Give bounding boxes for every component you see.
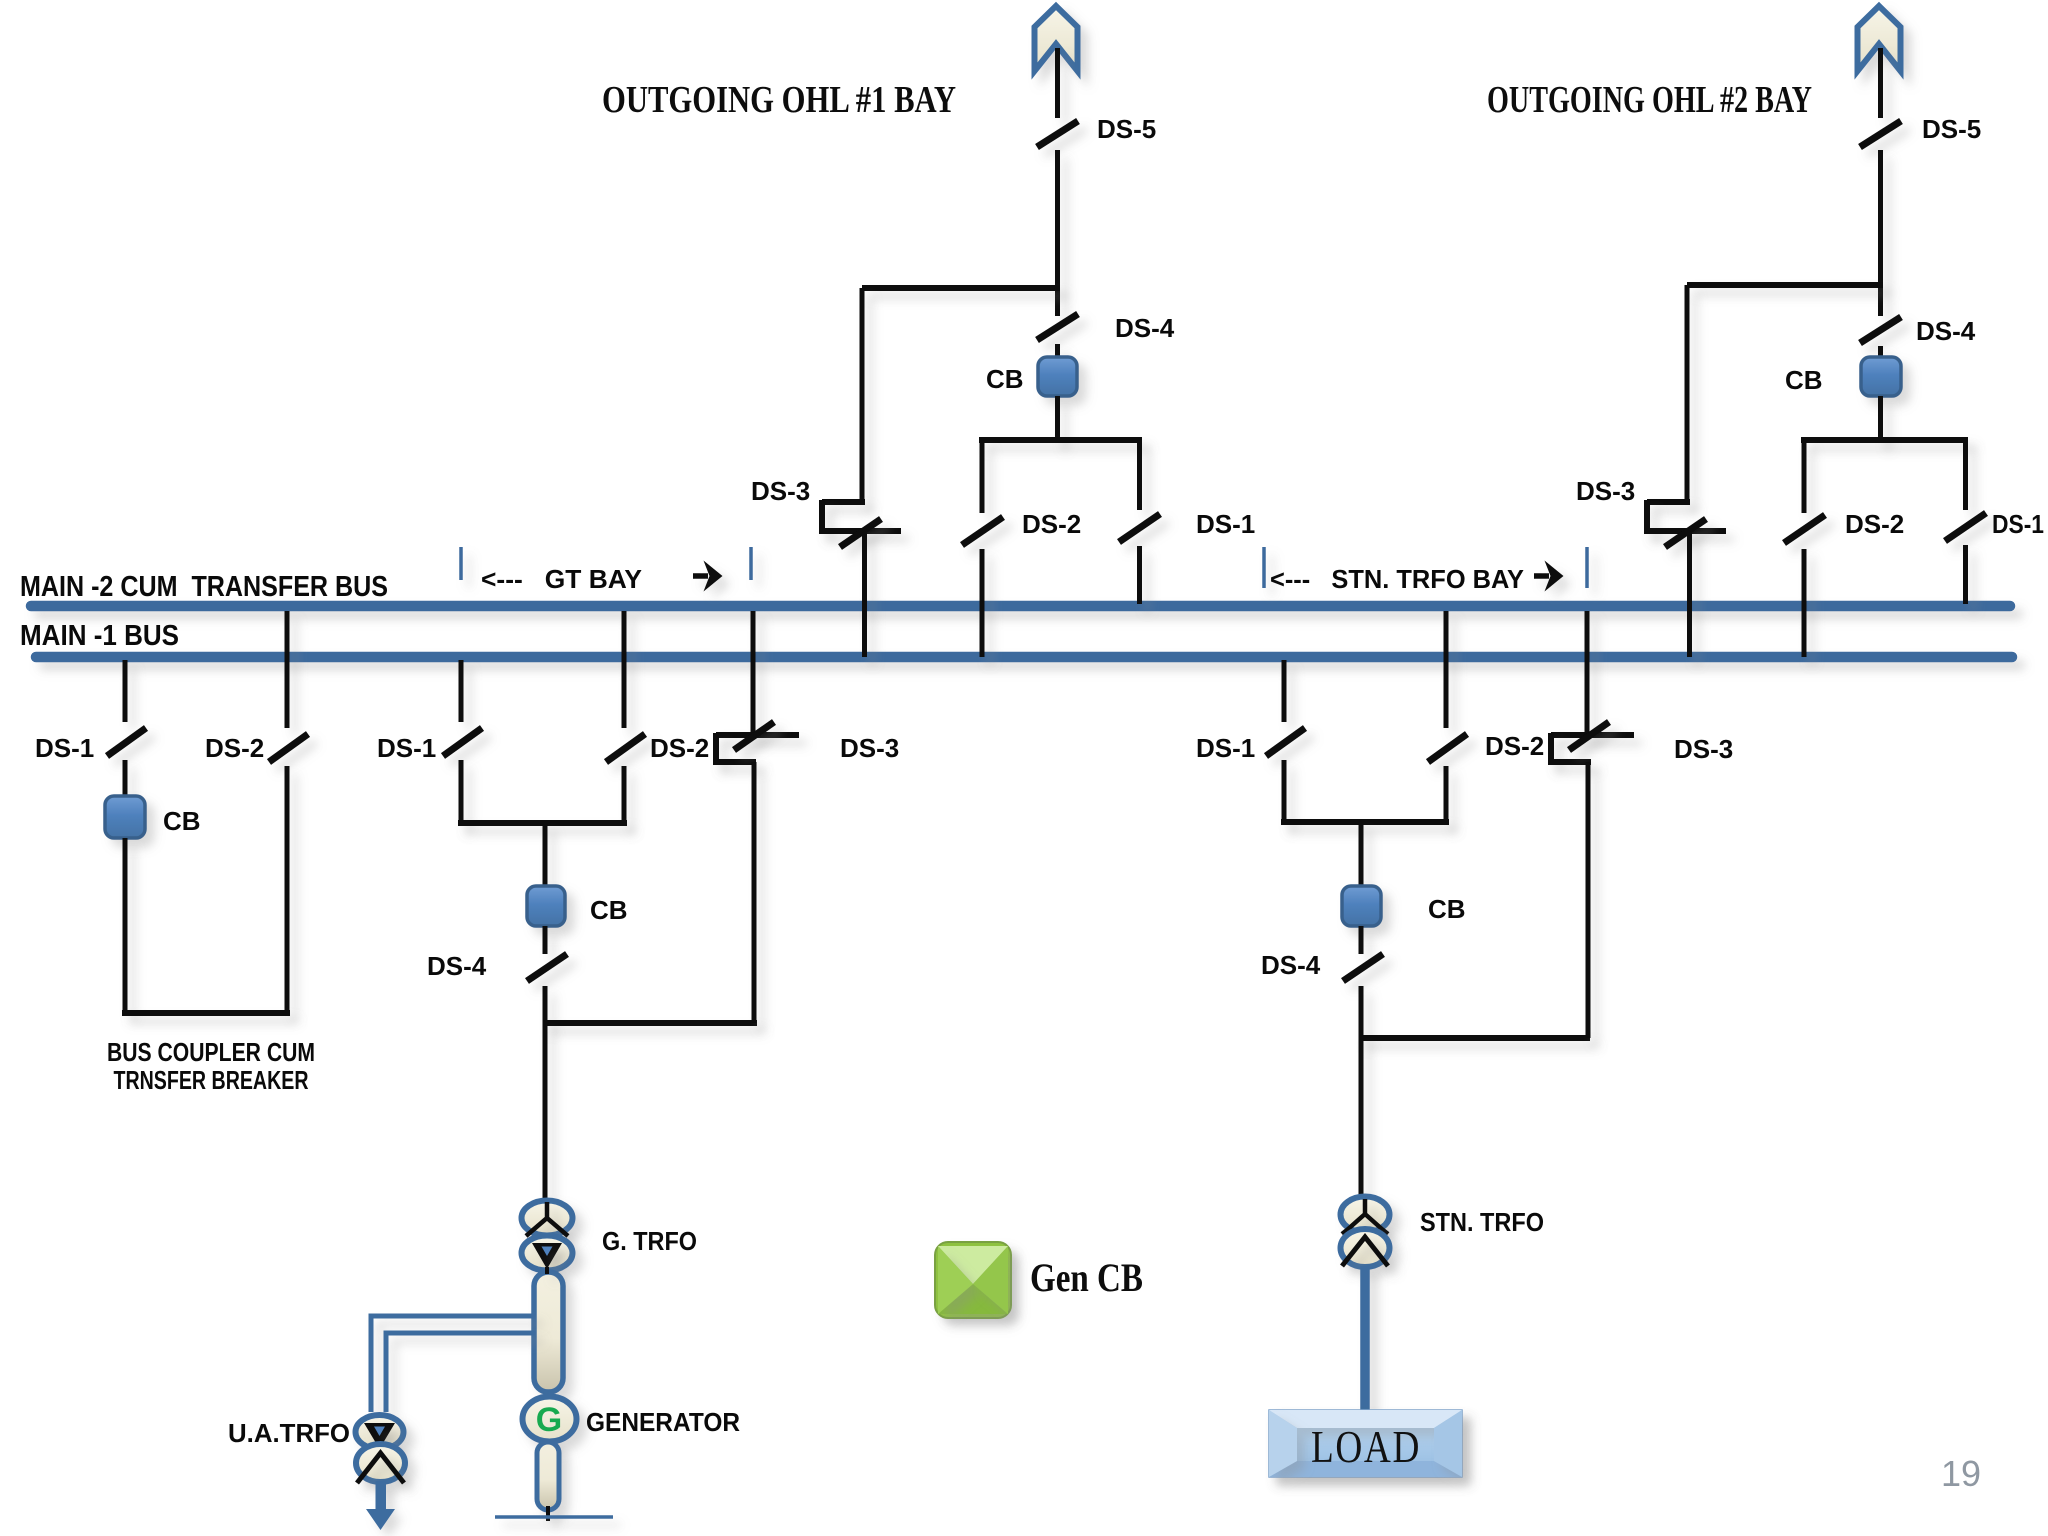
wire GT DS-2 upper [622, 611, 627, 728]
wire GT junction to DS-3 branch [543, 1020, 757, 1026]
svg-text:DS-3: DS-3 [1576, 476, 1635, 506]
svg-text:DS-3: DS-3 [840, 733, 899, 763]
wire STN below CB [1359, 926, 1364, 954]
disconnector DS-3 (OHL2) slash [1665, 519, 1706, 547]
svg-text:DS-2: DS-2 [1845, 509, 1904, 539]
transformer STN.TRFO chevron symbol [1342, 1237, 1388, 1266]
disconnector DS-3 (OHL1) slash [840, 519, 881, 547]
wire coupler DS-2 lower [285, 766, 290, 1013]
disconnector DS-3 (OHL2) jaw top [1647, 499, 1690, 505]
svg-text:DS-3: DS-3 [751, 476, 810, 506]
wire GT DS-1 lower [459, 760, 464, 826]
transformer U.A.TRFO upper winding [356, 1415, 404, 1449]
svg-text:DS-2: DS-2 [205, 733, 264, 763]
disconnector DS-3 (GT) jaw left step [713, 733, 719, 764]
wire OHL2 junction horizontal [1687, 282, 1883, 288]
wire OHL2 DS-1 upper [1963, 440, 1968, 510]
wire OHL2 below CB [1878, 396, 1883, 443]
disconnector DS-4 (GT) slash [527, 954, 567, 981]
wire STN CB drop [1359, 822, 1364, 888]
disconnector DS-4 (STN) slash [1343, 954, 1383, 981]
transformer G.TRFO upper winding [522, 1201, 573, 1236]
disconnector DS-5 (OHL1) slash [1037, 121, 1078, 147]
circuit breaker CB (OHL2) [1861, 357, 1901, 396]
disconnector DS-1 (GT) slash [443, 728, 482, 756]
disconnector DS-3 (GT) jaw bottom [713, 759, 756, 765]
svg-text:DS-1: DS-1 [35, 733, 94, 763]
transformer STN.TRFO lower winding [1341, 1229, 1390, 1267]
svg-text:G. TRFO: G. TRFO [602, 1226, 697, 1256]
generator G circle [523, 1397, 577, 1442]
svg-text:DS-2: DS-2 [1485, 731, 1544, 761]
LOAD box bottom bevel [1269, 1461, 1462, 1477]
svg-text:BUS COUPLER CUM: BUS COUPLER CUM [107, 1037, 315, 1067]
generator earth line [495, 1515, 613, 1519]
disconnector DS-3 (STN) jaw bottom [1548, 759, 1591, 765]
svg-text:CB: CB [1785, 365, 1823, 395]
LOAD box top bevel [1269, 1410, 1462, 1428]
wire GT DS-1 upper [459, 660, 464, 722]
disconnector DS-1 (OHL2) slash [1945, 513, 1986, 541]
transformer U.A.TRFO lower winding [356, 1444, 405, 1482]
disconnector DS-3 (OHL1) drop wire [860, 288, 865, 505]
svg-text:CB: CB [986, 364, 1024, 394]
wire OHL2 feeder [1878, 150, 1883, 316]
GT bay right tick [749, 547, 753, 580]
svg-text:OUTGOING OHL #1 BAY: OUTGOING OHL #1 BAY [602, 79, 956, 121]
generator bus duct upper bar [534, 1272, 563, 1392]
wire GT to G.TRFO [543, 1023, 548, 1203]
svg-text:DS-4: DS-4 [1261, 950, 1321, 980]
LOAD box right bevel [1434, 1410, 1462, 1477]
svg-text:DS-4: DS-4 [427, 951, 487, 981]
GT bay arrow glyph [693, 573, 708, 579]
wire OHL1 DS-3 lower [862, 531, 867, 657]
wire OHL1 DS-1 upper [1137, 440, 1142, 510]
bus MAIN-1 BUS [36, 652, 2012, 663]
STN TRFO bay arrow glyph [1534, 573, 1549, 579]
svg-text:<--- GT BAY: <--- GT BAY [481, 564, 642, 594]
circuit breaker CB (STN) [1342, 886, 1381, 926]
disconnector DS-3 (OHL1) jaw left step [819, 500, 825, 533]
wire OHL1 DS-1 lower [1137, 546, 1142, 604]
GT bay left tick [459, 547, 463, 580]
svg-text:MAIN -1 BUS: MAIN -1 BUS [20, 620, 179, 652]
wire STN DS-1 upper [1282, 660, 1287, 722]
disconnector DS-3 (GT) slash [734, 722, 774, 750]
outgoing line arrow OHL2 [1858, 6, 1901, 71]
generator bus duct lower bar [537, 1442, 559, 1510]
disconnector DS-3 (GT) jaw top [716, 732, 799, 738]
transformer G.TRFO wye symbol [526, 1202, 568, 1236]
transformer STN.TRFO wye symbol [1342, 1199, 1388, 1234]
wire coupler DS-1 lower [123, 760, 128, 798]
circuit breaker CB (coupler) [105, 796, 145, 838]
wire OHL2 DS-4 to CB [1878, 346, 1883, 359]
wire OHL2 DS-2 lower [1802, 549, 1807, 657]
wire OHL1 DS-2 lower [980, 549, 985, 657]
duct to U.A.TRFO inner line [386, 1333, 535, 1412]
duct to U.A.TRFO outer line [371, 1316, 535, 1412]
wire OHL2 DS-1 lower [1963, 545, 1968, 604]
wire STN below DS-4 [1359, 986, 1364, 1041]
svg-text:19: 19 [1941, 1453, 1981, 1494]
disconnector DS-3 (OHL1) jaw top [822, 499, 865, 505]
circuit breaker CB (OHL1) [1038, 357, 1077, 396]
disconnector DS-3 (OHL2) jaw bottom [1644, 528, 1726, 534]
wire coupler bottom link [122, 1010, 290, 1016]
wire GT CB drop [543, 823, 548, 888]
svg-text:DS-1: DS-1 [377, 733, 436, 763]
svg-text:TRNSFER BREAKER: TRNSFER BREAKER [114, 1065, 309, 1095]
wire OHL2 DS-2 upper [1802, 440, 1807, 513]
disconnector DS-4 (OHL2) slash [1860, 317, 1901, 343]
generator breaker Gen CB symbol [935, 1242, 1011, 1318]
wire GT below DS-4 [543, 986, 548, 1026]
U.A.TRFO load arrow [366, 1481, 395, 1530]
wire OHL1 DS-4 to CB [1055, 344, 1060, 359]
wire coupler below CB [123, 838, 128, 1013]
wire G.TRFO to bar [545, 1267, 549, 1274]
wire OHL1 above DS-5 [1055, 48, 1060, 118]
svg-text:GENERATOR: GENERATOR [586, 1407, 740, 1437]
disconnector DS-2 (coupler) slash [269, 734, 308, 762]
disconnector DS-1 (STN) slash [1266, 728, 1305, 756]
wire coupler DS-2 upper [285, 611, 290, 728]
wire GT DS-3 lower [752, 762, 757, 1023]
svg-text:DS-3: DS-3 [1674, 734, 1733, 764]
circuit breaker CB (GT) [527, 886, 565, 926]
svg-text:DS-4: DS-4 [1916, 316, 1976, 346]
svg-text:MAIN -2 CUM TRANSFER BUS: MAIN -2 CUM TRANSFER BUS [20, 571, 388, 603]
wire generator ground tick [546, 1506, 550, 1521]
svg-text:DS-2: DS-2 [1022, 509, 1081, 539]
wire coupler DS-1 upper [123, 660, 128, 722]
svg-text:DS-1: DS-1 [1196, 733, 1255, 763]
svg-text:DS-5: DS-5 [1097, 114, 1156, 144]
wire GT join bar [458, 820, 627, 826]
svg-text:CB: CB [1428, 894, 1466, 924]
wire STN DS-2 lower [1444, 766, 1449, 825]
disconnector DS-2 (OHL1) slash [962, 517, 1003, 545]
disconnector DS-3 (OHL2) drop wire [1685, 285, 1690, 505]
svg-text:DS-1: DS-1 [1992, 509, 2044, 539]
wire GT DS-2 lower [622, 766, 627, 826]
disconnector DS-2 (STN) slash [1428, 734, 1467, 762]
svg-text:STN. TRFO: STN. TRFO [1420, 1207, 1544, 1237]
svg-text:Gen CB: Gen CB [1030, 1255, 1143, 1300]
wire STN DS-2 upper [1444, 611, 1449, 728]
disconnector DS-3 (STN) slash [1569, 722, 1609, 750]
svg-text:G: G [536, 1401, 562, 1439]
disconnector DS-5 (OHL2) slash [1860, 121, 1901, 147]
wire OHL1 below CB [1055, 396, 1060, 443]
wire OHL1 T bar [979, 437, 1142, 443]
wire STN.TRFO to LOAD (blue) [1360, 1266, 1370, 1412]
disconnector DS-1 (coupler) slash [107, 728, 146, 756]
transformer U.A.TRFO chevron symbol [357, 1453, 404, 1483]
svg-text:CB: CB [590, 895, 628, 925]
STN TRFO bay right tick [1585, 547, 1589, 588]
svg-text:CB: CB [163, 806, 201, 836]
disconnector DS-3 (STN) jaw top [1551, 732, 1634, 738]
svg-text:OUTGOING OHL #2 BAY: OUTGOING OHL #2 BAY [1487, 79, 1812, 121]
disconnector DS-3 (OHL1) jaw bottom [819, 528, 901, 534]
STN TRFO bay left tick [1262, 547, 1266, 588]
svg-text:DS-2: DS-2 [650, 733, 709, 763]
svg-text:LOAD: LOAD [1311, 1421, 1421, 1472]
svg-text:DS-4: DS-4 [1115, 313, 1175, 343]
wire STN DS-1 lower [1282, 760, 1287, 825]
disconnector DS-3 (GT) top wire [751, 611, 756, 736]
LOAD box outer [1269, 1410, 1462, 1477]
wire OHL1 feeder [1055, 150, 1060, 316]
svg-text:<--- STN. TRFO BAY: <--- STN. TRFO BAY [1270, 564, 1524, 594]
wire OHL2 above DS-5 [1878, 48, 1883, 118]
wire STN DS-3 lower [1586, 762, 1591, 1038]
wire OHL1 junction horizontal [862, 285, 1060, 291]
wire OHL2 T bar [1801, 437, 1968, 443]
disconnector DS-4 (OHL1) slash [1037, 314, 1078, 340]
wire GT below CB [543, 926, 548, 954]
svg-text:DS-5: DS-5 [1922, 114, 1981, 144]
transformer U.A.TRFO delta symbol [364, 1423, 395, 1449]
disconnector DS-3 (STN) top wire [1585, 611, 1590, 736]
bus MAIN-2 CUM TRANSFER BUS [31, 601, 2010, 612]
wire OHL1 DS-2 upper [980, 440, 985, 513]
disconnector DS-1 (OHL1) slash [1119, 514, 1160, 542]
transformer G.TRFO lower winding [522, 1236, 573, 1271]
wire STN join bar [1281, 819, 1449, 825]
wire STN to STN.TRFO [1359, 1038, 1364, 1199]
svg-text:U.A.TRFO: U.A.TRFO [228, 1418, 350, 1448]
wire OHL2 DS-3 lower [1687, 531, 1692, 657]
LOAD box left bevel [1269, 1410, 1297, 1477]
svg-text:DS-1: DS-1 [1196, 509, 1255, 539]
wire STN junction to DS-3 branch [1359, 1035, 1590, 1041]
transformer G.TRFO delta symbol [532, 1243, 562, 1269]
outgoing line arrow OHL1 [1035, 6, 1078, 71]
disconnector DS-3 (STN) jaw left step [1548, 733, 1554, 764]
disconnector DS-2 (GT) slash [606, 734, 645, 762]
disconnector DS-3 (OHL2) jaw left step [1644, 500, 1650, 533]
transformer STN.TRFO upper winding [1341, 1197, 1390, 1233]
disconnector DS-2 (OHL2) slash [1784, 515, 1825, 543]
